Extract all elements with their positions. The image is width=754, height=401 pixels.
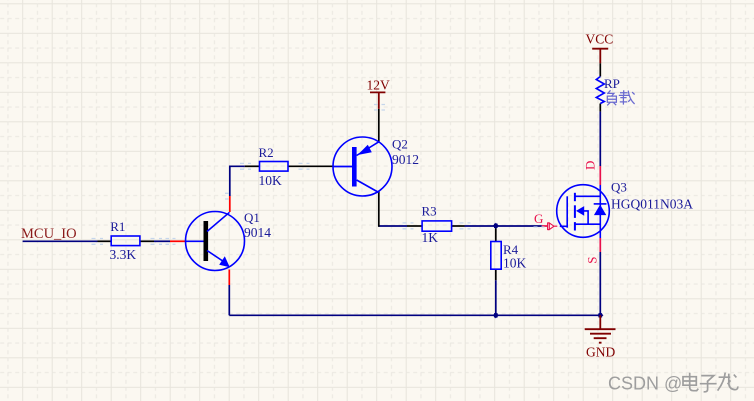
Q3 drain pin xyxy=(599,166,601,185)
wire Q2 collector corner to R3 xyxy=(379,225,408,227)
substrate to source xyxy=(584,211,588,224)
channel segments xyxy=(574,193,576,231)
Q2 collector down to corner xyxy=(378,192,380,227)
wire R1 to Q1 base xyxy=(154,240,170,242)
wire R3 to Q3 gate xyxy=(465,225,542,227)
gate connection xyxy=(560,225,567,227)
Q3 gate pin with arrow glyph xyxy=(542,225,548,227)
svg-text:Q2: Q2 xyxy=(392,137,408,152)
R2 pins xyxy=(245,165,260,167)
Q3 source pin xyxy=(599,238,601,252)
node R4 bottom rail junction xyxy=(493,312,499,318)
wire MCU_IO to R1 xyxy=(23,240,98,242)
svg-text:D: D xyxy=(583,161,598,170)
svg-text:GND: GND xyxy=(586,344,615,359)
wire Q1 emitter down xyxy=(228,285,230,315)
drain connect xyxy=(575,185,600,238)
svg-text:R1: R1 xyxy=(110,219,125,234)
Q1 emitter pin xyxy=(228,270,230,286)
Q1 collector pin xyxy=(229,196,231,212)
svg-text:9012: 9012 xyxy=(392,152,419,167)
wire RP to Q3 drain xyxy=(599,112,601,166)
svg-text:9014: 9014 xyxy=(244,225,271,240)
RP pins xyxy=(599,63,601,76)
wire bottom rail xyxy=(229,314,600,316)
wire Q1 collector up to R2 corner xyxy=(230,166,245,196)
wire Q3 source down to rail xyxy=(599,252,601,315)
svg-text:VCC: VCC xyxy=(586,32,614,47)
svg-text:S: S xyxy=(585,256,600,263)
node R3/R4/G junction xyxy=(493,223,499,229)
svg-text:G: G xyxy=(534,211,543,226)
svg-text:10K: 10K xyxy=(259,173,283,188)
svg-text:HGQ011N03A: HGQ011N03A xyxy=(611,197,693,212)
负 xyxy=(607,90,616,105)
diode cathode bar xyxy=(594,203,607,205)
svg-text:MCU_IO: MCU_IO xyxy=(21,226,77,242)
pin hotspot grid marks xyxy=(92,105,545,245)
Q1 base pin xyxy=(170,240,186,242)
source connect xyxy=(575,223,600,225)
R1 pins xyxy=(98,240,112,242)
label 负载 (load) xyxy=(607,90,634,105)
svg-text:1K: 1K xyxy=(422,230,439,245)
R3 pins xyxy=(407,225,422,227)
watermark CSDN xyxy=(608,373,738,394)
载 xyxy=(619,90,635,104)
龙 xyxy=(718,373,738,391)
svg-text:12V: 12V xyxy=(367,78,391,93)
svg-text:CSDN @: CSDN @ xyxy=(608,374,682,394)
node GND rail junction xyxy=(597,312,603,318)
svg-text:Q1: Q1 xyxy=(244,210,260,225)
12V down to Q2 emitter xyxy=(378,109,380,142)
body diode triangle xyxy=(594,205,606,216)
子 xyxy=(700,376,717,392)
substrate arrow xyxy=(576,206,584,216)
svg-text:10K: 10K xyxy=(503,255,527,270)
svg-text:R2: R2 xyxy=(259,145,274,160)
svg-text:Q3: Q3 xyxy=(611,180,627,195)
R4 pins xyxy=(495,226,497,242)
gate bar xyxy=(566,196,568,227)
svg-text:R3: R3 xyxy=(422,204,437,219)
wire R4 bottom to bottom rail xyxy=(495,280,497,315)
svg-text:3.3K: 3.3K xyxy=(110,247,137,262)
svg-text:RP: RP xyxy=(604,76,620,91)
电 xyxy=(683,373,698,391)
